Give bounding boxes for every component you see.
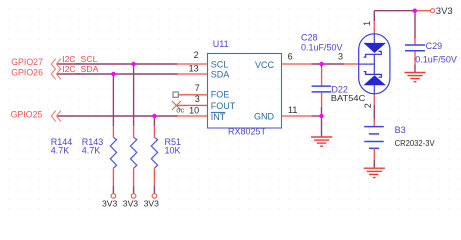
wire I2C_SDA horizontal (GPIO26 to pin 13) (57, 73, 178, 75)
svg-text:SDA: SDA (211, 70, 230, 80)
svg-text:3: 3 (338, 52, 343, 62)
svg-text:INT: INT (211, 112, 226, 122)
power port 3V3 under R144 (102, 194, 118, 209)
port GPIO27 (11, 57, 61, 69)
wire GPIO25/INT horizontal (GPIO25 to pin 10) (57, 115, 178, 117)
wire C28 bottom stub (321, 107, 323, 116)
resistor R143 (82, 126, 137, 186)
pin 7 FOE (178, 83, 207, 95)
wire C29 drop from rail (414, 11, 416, 39)
wire R144 to 3V3 port (112, 186, 114, 193)
svg-text:11: 11 (288, 105, 297, 115)
ground under battery (364, 168, 385, 177)
svg-text:I2C_SCL: I2C_SCL (62, 54, 97, 64)
wire C29 to ground (414, 65, 416, 73)
wire VCC net (pin 6 to diode pin 3) (312, 63, 345, 65)
wire 3V3 top rail (374, 10, 414, 12)
svg-text:0.1uF/50V: 0.1uF/50V (301, 42, 343, 52)
pin 2 SCL (178, 50, 208, 64)
power port 3V3 under R51 (144, 194, 160, 209)
svg-text:VCC: VCC (255, 60, 275, 70)
junction on INT wire (152, 114, 156, 118)
svg-text:3V3: 3V3 (436, 6, 453, 17)
svg-text:3V3: 3V3 (123, 199, 139, 209)
svg-text:3V3: 3V3 (102, 199, 118, 209)
svg-text:3: 3 (195, 94, 200, 104)
svg-text:U11: U11 (213, 39, 229, 49)
wire SCL drop to R143 (133, 64, 135, 126)
svg-text:3V3: 3V3 (144, 199, 160, 209)
battery B3 CR2032-3V (364, 125, 435, 160)
pin 6 VCC (282, 52, 312, 65)
power port 3V3 top right (415, 6, 453, 17)
resistor R144 (51, 126, 117, 186)
svg-text:I2C_SDA: I2C_SDA (62, 64, 98, 74)
port GPIO26 (11, 67, 61, 79)
svg-text:0.1uF/50V: 0.1uF/50V (415, 54, 457, 64)
diode D22 BAT54C (331, 11, 390, 127)
pin 3 FOUT (178, 94, 208, 106)
resistor R51 (151, 126, 181, 186)
svg-text:7: 7 (195, 83, 200, 93)
ground under C29 (404, 73, 425, 82)
wire R143 to 3V3 port (133, 186, 135, 193)
wire I2C_SCL horizontal (GPIO27 to pin 2) (57, 63, 178, 65)
svg-text:SCL: SCL (211, 60, 229, 70)
wire INT drop to R51 (153, 116, 155, 126)
svg-text:10K: 10K (165, 145, 181, 155)
svg-text:CR2032-3V: CR2032-3V (395, 138, 435, 148)
svg-text:FOUT: FOUT (211, 101, 236, 111)
ground under C28 (311, 137, 332, 146)
svg-text:GPIO27: GPIO27 (11, 57, 43, 67)
wire battery to ground (373, 160, 375, 168)
svg-text:10: 10 (189, 105, 199, 115)
svg-text:13: 13 (189, 64, 199, 74)
svg-text:2: 2 (194, 50, 199, 60)
svg-text:6: 6 (288, 52, 293, 62)
svg-text:2: 2 (363, 103, 373, 108)
svg-text:4.7K: 4.7K (82, 145, 101, 155)
junction on SDA wire (111, 72, 115, 76)
junction on SCL wire (131, 62, 135, 66)
power port 3V3 under R143 (123, 194, 139, 209)
IC U11 RX8025T (208, 39, 282, 137)
pin 11 GND (282, 105, 312, 116)
wire SDA drop to R144 (112, 74, 114, 126)
pin 13 SDA (178, 64, 208, 74)
capacitor C28 (301, 32, 343, 107)
svg-text:RX8025T: RX8025T (228, 127, 267, 137)
svg-text:4.7K: 4.7K (51, 145, 70, 155)
no-connect square marker on pin 7 (173, 92, 178, 97)
pin 10 INT (178, 105, 208, 116)
wire R51 to 3V3 port (153, 186, 155, 193)
no-ERC cross marker on pin 3 (172, 101, 181, 110)
svg-text:GPIO25: GPIO25 (11, 109, 43, 119)
svg-text:FOE: FOE (211, 90, 230, 100)
port GPIO25 (11, 109, 61, 121)
wire GND net (pin 11 to C28 bottom) (312, 115, 322, 117)
svg-text:GPIO26: GPIO26 (11, 67, 43, 77)
svg-text:B3: B3 (395, 125, 406, 135)
junction 3V3 rail/C29 (413, 9, 417, 13)
capacitor C29 (405, 39, 457, 65)
wire C28 top stub (321, 64, 323, 68)
wire down to ground under C28 (321, 116, 323, 137)
svg-text:C28: C28 (301, 32, 318, 42)
svg-text:C29: C29 (426, 41, 443, 51)
junction VCC/C28 (319, 62, 323, 66)
junction GND/C28 (319, 114, 323, 118)
svg-text:BAT54C: BAT54C (331, 93, 366, 103)
svg-text:GND: GND (254, 112, 275, 122)
svg-text:1: 1 (362, 21, 372, 26)
svg-text:oc: oc (176, 106, 184, 115)
